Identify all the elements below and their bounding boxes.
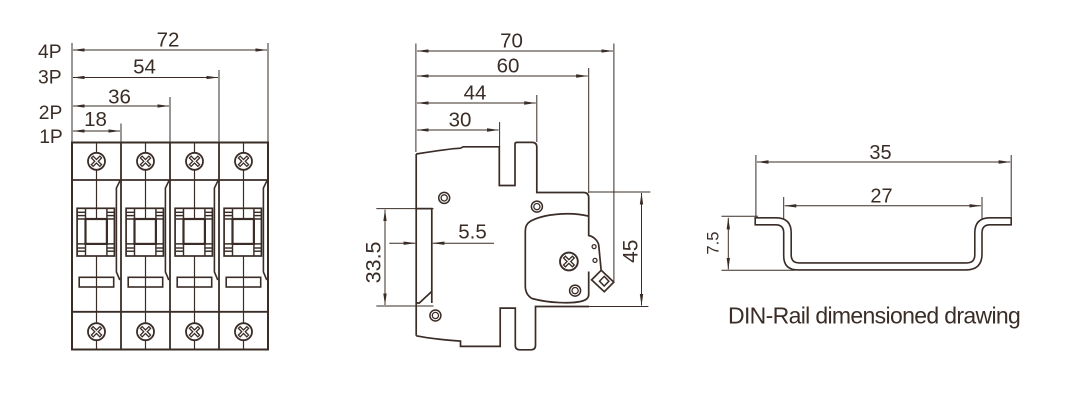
side body outline top — [416, 142, 601, 269]
terminal screw bottom 2 — [137, 323, 154, 340]
dimension line 35 — [757, 161, 1010, 163]
terminal screw top 2 — [137, 153, 154, 170]
45 dimension line — [641, 193, 643, 306]
dimension line 72 — [73, 49, 267, 51]
svg-text:45: 45 — [620, 240, 643, 263]
svg-text:35: 35 — [869, 142, 891, 164]
pole centerline 2 — [145, 143, 147, 350]
rivet top left — [439, 192, 450, 203]
label window pole 1 — [79, 277, 114, 287]
pole divider 2 — [169, 143, 171, 350]
svg-text:54: 54 — [133, 56, 156, 79]
toggle switch pole 1 — [77, 208, 114, 256]
terminal screw top 1 — [88, 153, 105, 170]
toggle switch pole 2 — [126, 208, 163, 256]
svg-text:60: 60 — [497, 55, 520, 78]
5.5 dimension right arrow — [433, 242, 494, 244]
DIN latch diamond inner square — [600, 276, 609, 286]
extension line left x=72 — [71, 43, 73, 143]
front view dimension extension lines — [72, 43, 268, 143]
extension line x=499.6 — [499, 122, 501, 147]
label window pole 4 — [226, 277, 261, 287]
back edge below latch — [588, 272, 590, 296]
extension line x=170 — [169, 97, 171, 143]
front face slot — [416, 209, 432, 303]
svg-text:33.5: 33.5 — [361, 241, 385, 283]
svg-text:2P: 2P — [39, 103, 63, 124]
pole divider 3 — [218, 143, 220, 350]
extension line right x=268 — [267, 43, 269, 143]
5.5 dimension left arrow — [389, 242, 415, 244]
45 extension line top — [589, 191, 650, 193]
pole divider 1 — [120, 143, 122, 350]
svg-text:DIN-Rail dimensioned drawing: DIN-Rail dimensioned drawing — [728, 302, 1020, 328]
dimension line 44 — [417, 102, 536, 104]
side body outline bottom — [416, 307, 589, 350]
rail dimensions — [722, 155, 1012, 270]
7.5 extension line top — [722, 215, 759, 217]
label window pole 3 — [177, 277, 212, 287]
rivet panel bottom — [570, 285, 581, 296]
svg-text:72: 72 — [157, 29, 180, 52]
toggle switch pole 3 — [175, 208, 212, 256]
33.5 extension line top — [376, 208, 433, 210]
bottom terminal section line — [72, 311, 268, 313]
pole face step edge 1 — [116, 181, 120, 280]
latch pivot hole lower — [593, 258, 597, 262]
dimension line 70 — [417, 50, 613, 52]
top terminal section line — [72, 179, 268, 181]
terminal screw top 3 — [186, 153, 203, 170]
toggle switch pole 4 — [224, 208, 261, 256]
27 extension line right — [981, 197, 983, 219]
rivet bottom left — [430, 310, 441, 321]
terminal screw bottom 3 — [186, 323, 203, 340]
dimension line 60 — [417, 75, 588, 77]
svg-text:18: 18 — [84, 108, 107, 131]
45 extension line bottom — [589, 306, 648, 308]
pole centerline 3 — [194, 143, 196, 350]
svg-text:4P: 4P — [38, 42, 62, 63]
svg-text:44: 44 — [464, 82, 487, 105]
extension line x=536.8 — [536, 95, 538, 142]
svg-text:1P: 1P — [39, 127, 63, 148]
extension line x=219 — [218, 70, 220, 143]
terminal screw bottom 4 — [235, 323, 252, 340]
svg-text:70: 70 — [500, 30, 523, 53]
pole face step edge 2 — [165, 181, 169, 280]
pole centerline 4 — [243, 143, 245, 350]
panel screw with cross — [560, 253, 578, 271]
breaker body outline — [72, 143, 268, 350]
pole face step edge 3 — [214, 181, 218, 280]
dimension line 54 — [73, 77, 218, 79]
extension line x=613.9 latch tip — [613, 44, 615, 282]
27 extension line left — [783, 197, 785, 219]
extension line x=121 — [120, 124, 122, 143]
dimension line 18 — [73, 130, 120, 132]
33.5 dimension line — [384, 210, 386, 305]
side body front edge — [415, 154, 417, 336]
side pole face panel — [525, 214, 588, 303]
35 extension line left — [755, 155, 757, 217]
terminal screw bottom 1 — [88, 323, 105, 340]
35 extension line right — [1010, 155, 1012, 217]
svg-text:3P: 3P — [38, 68, 62, 89]
side view dimensions — [376, 44, 650, 307]
pole face step edge 4 — [263, 181, 267, 280]
svg-text:27: 27 — [870, 185, 892, 207]
dimension line 36 — [73, 105, 169, 107]
DIN rail cross-section — [755, 218, 1011, 270]
extension line x=588.7 — [588, 68, 590, 193]
latch pivot hole upper — [592, 245, 596, 249]
extension line left x=415.9 — [415, 44, 417, 153]
svg-text:30: 30 — [449, 109, 472, 132]
DIN latch diamond — [592, 270, 614, 291]
svg-text:7.5: 7.5 — [704, 232, 722, 255]
svg-text:36: 36 — [108, 86, 131, 109]
33.5 extension line bottom — [376, 305, 433, 307]
label window pole 2 — [128, 277, 163, 287]
dimension line 27 — [785, 205, 981, 207]
pole centerline 1 — [96, 143, 98, 350]
dimension line 30 — [417, 129, 499, 131]
rivet top center — [531, 201, 542, 212]
dimension line 7.5 — [727, 218, 729, 270]
7.5 extension line bottom — [722, 269, 796, 271]
terminal screw top 4 — [235, 153, 252, 170]
svg-text:5.5: 5.5 — [458, 221, 487, 244]
